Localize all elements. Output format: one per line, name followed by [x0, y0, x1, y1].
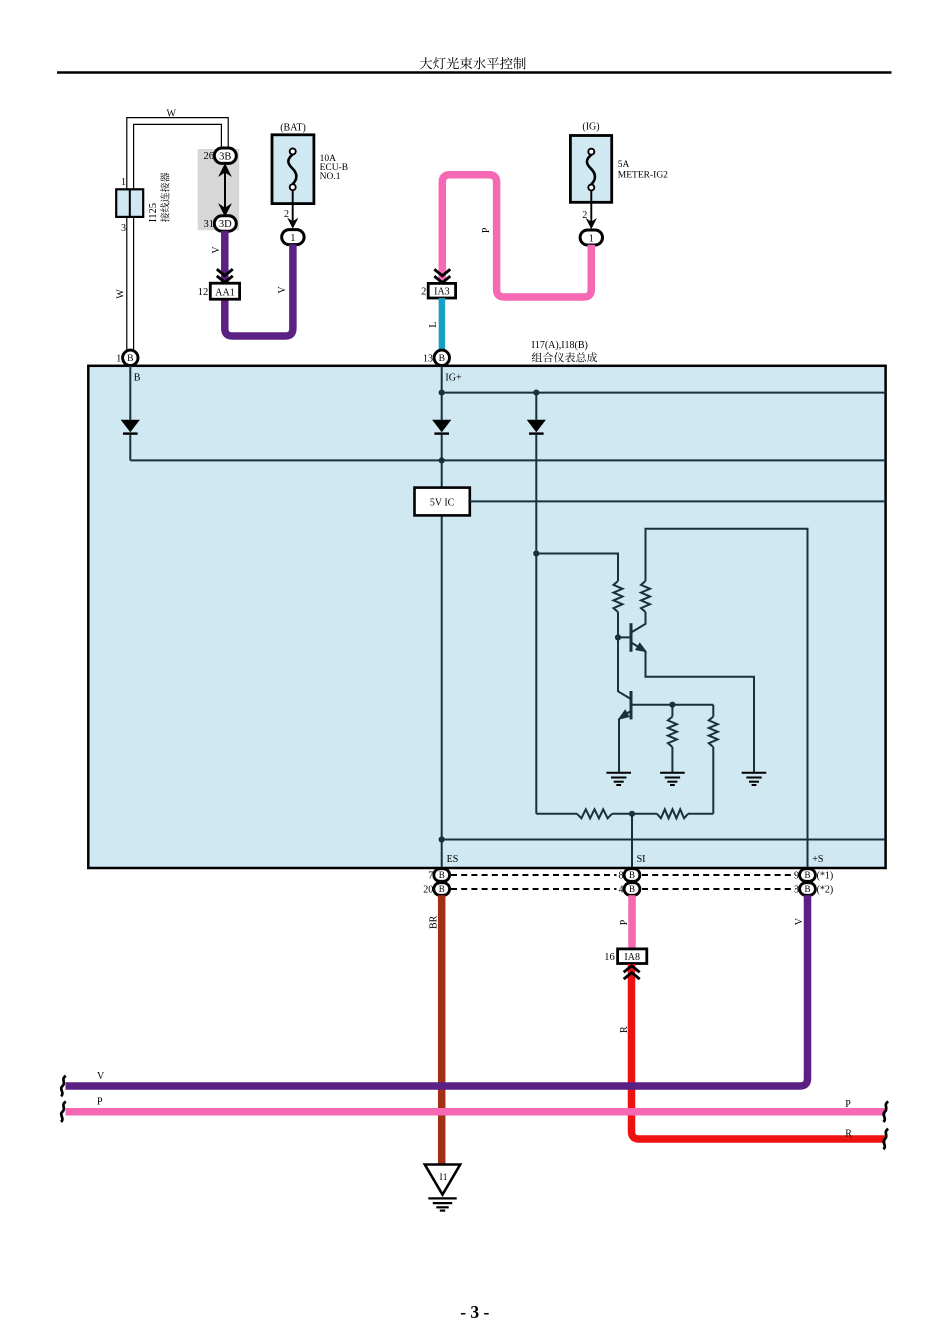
wire R red from IA8	[632, 964, 886, 1139]
svg-text:20: 20	[423, 885, 433, 896]
svg-text:12: 12	[198, 287, 209, 298]
wire P pink horizontal	[66, 1108, 886, 1116]
pin 9(B)	[800, 869, 816, 882]
wire R2 top to +S rail	[646, 529, 808, 867]
svg-text:(*2): (*2)	[817, 885, 834, 896]
wire Q1 emitter to ground G3	[646, 651, 755, 773]
svg-text:5A: 5A	[618, 160, 630, 170]
svg-text:R: R	[619, 1026, 630, 1033]
resistor R1	[614, 581, 623, 612]
node 3D	[214, 216, 236, 231]
pin 8(B)	[624, 869, 640, 882]
svg-text:W: W	[116, 289, 127, 299]
ground G1	[606, 773, 631, 785]
wire branch with diode D3	[527, 393, 546, 814]
node 1 (IG)	[580, 230, 602, 245]
dashed links row 2	[451, 888, 796, 890]
svg-text:2: 2	[582, 210, 587, 221]
svg-text:V: V	[277, 286, 288, 294]
svg-text:26: 26	[204, 151, 215, 162]
svg-text:P: P	[619, 919, 630, 925]
svg-text:(*1): (*1)	[817, 871, 834, 882]
svg-text:5V IC: 5V IC	[430, 497, 455, 508]
resistor R6	[632, 809, 713, 818]
double arrow between 3B and 3D	[219, 164, 230, 215]
fuse 5A METER-IG2 (IG)	[570, 136, 611, 203]
title 大灯光束水平控制	[420, 57, 526, 69]
resistor R2	[641, 581, 650, 612]
svg-text:8: 8	[619, 871, 624, 882]
break mark pink right	[883, 1102, 888, 1122]
svg-text:1: 1	[116, 353, 121, 364]
svg-text:(BAT): (BAT)	[280, 123, 306, 134]
feedback row: wire, resistor R5	[536, 809, 632, 818]
bus H1 horizontal	[130, 459, 885, 461]
pin 1 node B (left)	[123, 350, 138, 365]
node SI junction	[629, 811, 635, 817]
svg-text:I125: I125	[148, 203, 159, 222]
svg-text:+S: +S	[812, 854, 823, 865]
wire V purple 3D to AA1 to node 1	[225, 231, 293, 336]
connector I125 接线连接器	[116, 189, 143, 217]
svg-text:16: 16	[604, 952, 615, 963]
node 1 (BAT)	[282, 230, 304, 245]
break mark pink left	[61, 1102, 66, 1122]
wire base node down to Q2 collector	[618, 637, 630, 698]
svg-text:L: L	[428, 321, 439, 327]
label I125 接线连接器 rotated	[148, 173, 170, 223]
svg-text:3: 3	[794, 885, 799, 896]
svg-text:P: P	[97, 1097, 103, 1108]
wire R2 bottom to Q1 collector	[632, 612, 646, 632]
transistor Q1	[618, 623, 646, 652]
node 3B	[214, 148, 236, 163]
svg-text:P: P	[481, 227, 492, 233]
svg-text:(IG): (IG)	[582, 122, 599, 133]
pin 7(B)	[434, 869, 450, 882]
connector IA8	[618, 949, 647, 964]
wire from fuse BAT pin 2	[287, 190, 298, 229]
junction dots on buses	[439, 390, 540, 843]
resistor R3	[668, 705, 677, 773]
wire BR brown ES to ground I1	[438, 895, 446, 1164]
ground G3	[742, 773, 767, 785]
wire L teal IA3 to pin 13	[439, 298, 446, 350]
svg-text:3B: 3B	[219, 151, 231, 162]
svg-text:SI: SI	[637, 854, 646, 865]
connector AA1	[210, 283, 239, 299]
combination meter I17(A),I18(B) 组合仪表总成 box	[88, 366, 885, 868]
svg-text:IG+: IG+	[445, 373, 462, 384]
bus H3 from 5V IC	[470, 500, 886, 502]
bus H4 horizontal ES	[442, 839, 886, 841]
svg-text:3D: 3D	[219, 219, 232, 230]
regulator 5V IC	[415, 488, 470, 516]
wire SI vertical	[631, 814, 633, 867]
fuse 10A ECU-B NO.1 (BAT)	[272, 135, 314, 204]
pin 20(B)	[434, 883, 450, 896]
svg-text:BR: BR	[429, 915, 440, 929]
bus H2 horizontal	[442, 392, 886, 394]
svg-text:V: V	[794, 917, 805, 925]
svg-text:I17(A),I18(B): I17(A),I18(B)	[532, 340, 588, 351]
svg-text:9: 9	[794, 871, 799, 882]
svg-text:- 3 -: - 3 -	[460, 1302, 489, 1322]
ground I1	[425, 1165, 460, 1211]
svg-text:2: 2	[421, 287, 426, 298]
svg-text:31: 31	[204, 219, 215, 230]
svg-text:3: 3	[121, 223, 126, 234]
pin 13 node B (IG+)	[434, 350, 449, 365]
svg-text:ES: ES	[447, 854, 459, 865]
connector IA3	[428, 283, 455, 298]
pin 3(B)	[800, 883, 816, 896]
svg-text:4: 4	[619, 885, 624, 896]
chevron into IA3	[434, 269, 450, 282]
svg-text:AA1: AA1	[215, 287, 234, 298]
resistor R4	[709, 705, 718, 814]
svg-text:V: V	[211, 246, 222, 254]
svg-text:2: 2	[284, 209, 289, 220]
wire R1 to base node	[617, 612, 619, 637]
ground G2	[660, 773, 685, 785]
chevron out of IA8 (up)	[624, 966, 640, 979]
break mark purple left	[61, 1076, 66, 1096]
wire V purple +S down and across	[66, 895, 808, 1086]
title rule	[57, 71, 892, 73]
svg-text:R: R	[845, 1129, 852, 1140]
svg-text:7: 7	[428, 871, 433, 882]
wire P pink SI to IA8	[628, 895, 636, 949]
wire IG+ vertical with diode D2	[432, 366, 451, 867]
svg-text:1: 1	[121, 177, 126, 188]
svg-text:IA8: IA8	[624, 952, 640, 963]
svg-text:13: 13	[423, 353, 433, 364]
wire from fuse IG pin 2	[586, 191, 597, 230]
pin stubs below box	[442, 867, 808, 896]
wire P pink node1 IG to IA3	[442, 175, 591, 297]
pin 4(B)	[624, 883, 640, 896]
svg-text:NO.1: NO.1	[320, 172, 341, 182]
label 组合仪表总成	[532, 352, 597, 362]
branch to resistor R1	[536, 554, 618, 582]
node base Q1	[615, 634, 621, 640]
svg-text:METER-IG2: METER-IG2	[618, 171, 668, 181]
svg-text:I1: I1	[440, 1173, 448, 1183]
svg-text:P: P	[845, 1099, 851, 1110]
transistor Q2	[619, 691, 713, 719]
svg-text:W: W	[167, 108, 177, 119]
chevron into AA1	[217, 269, 233, 282]
svg-text:V: V	[97, 1071, 105, 1082]
svg-text:1: 1	[290, 233, 295, 244]
node base Q2	[669, 702, 675, 708]
wire B vertical with diode D1	[121, 366, 140, 461]
svg-text:1: 1	[589, 233, 594, 244]
wire W white from I125 to junction 3B	[130, 121, 225, 350]
svg-text:B: B	[134, 373, 141, 384]
junction block shield (gray)	[198, 149, 240, 230]
wire Q2 emitter to ground G1	[618, 719, 620, 773]
break mark red right	[883, 1129, 888, 1149]
svg-text:IA3: IA3	[434, 287, 450, 298]
dashed links row 1	[451, 874, 796, 876]
